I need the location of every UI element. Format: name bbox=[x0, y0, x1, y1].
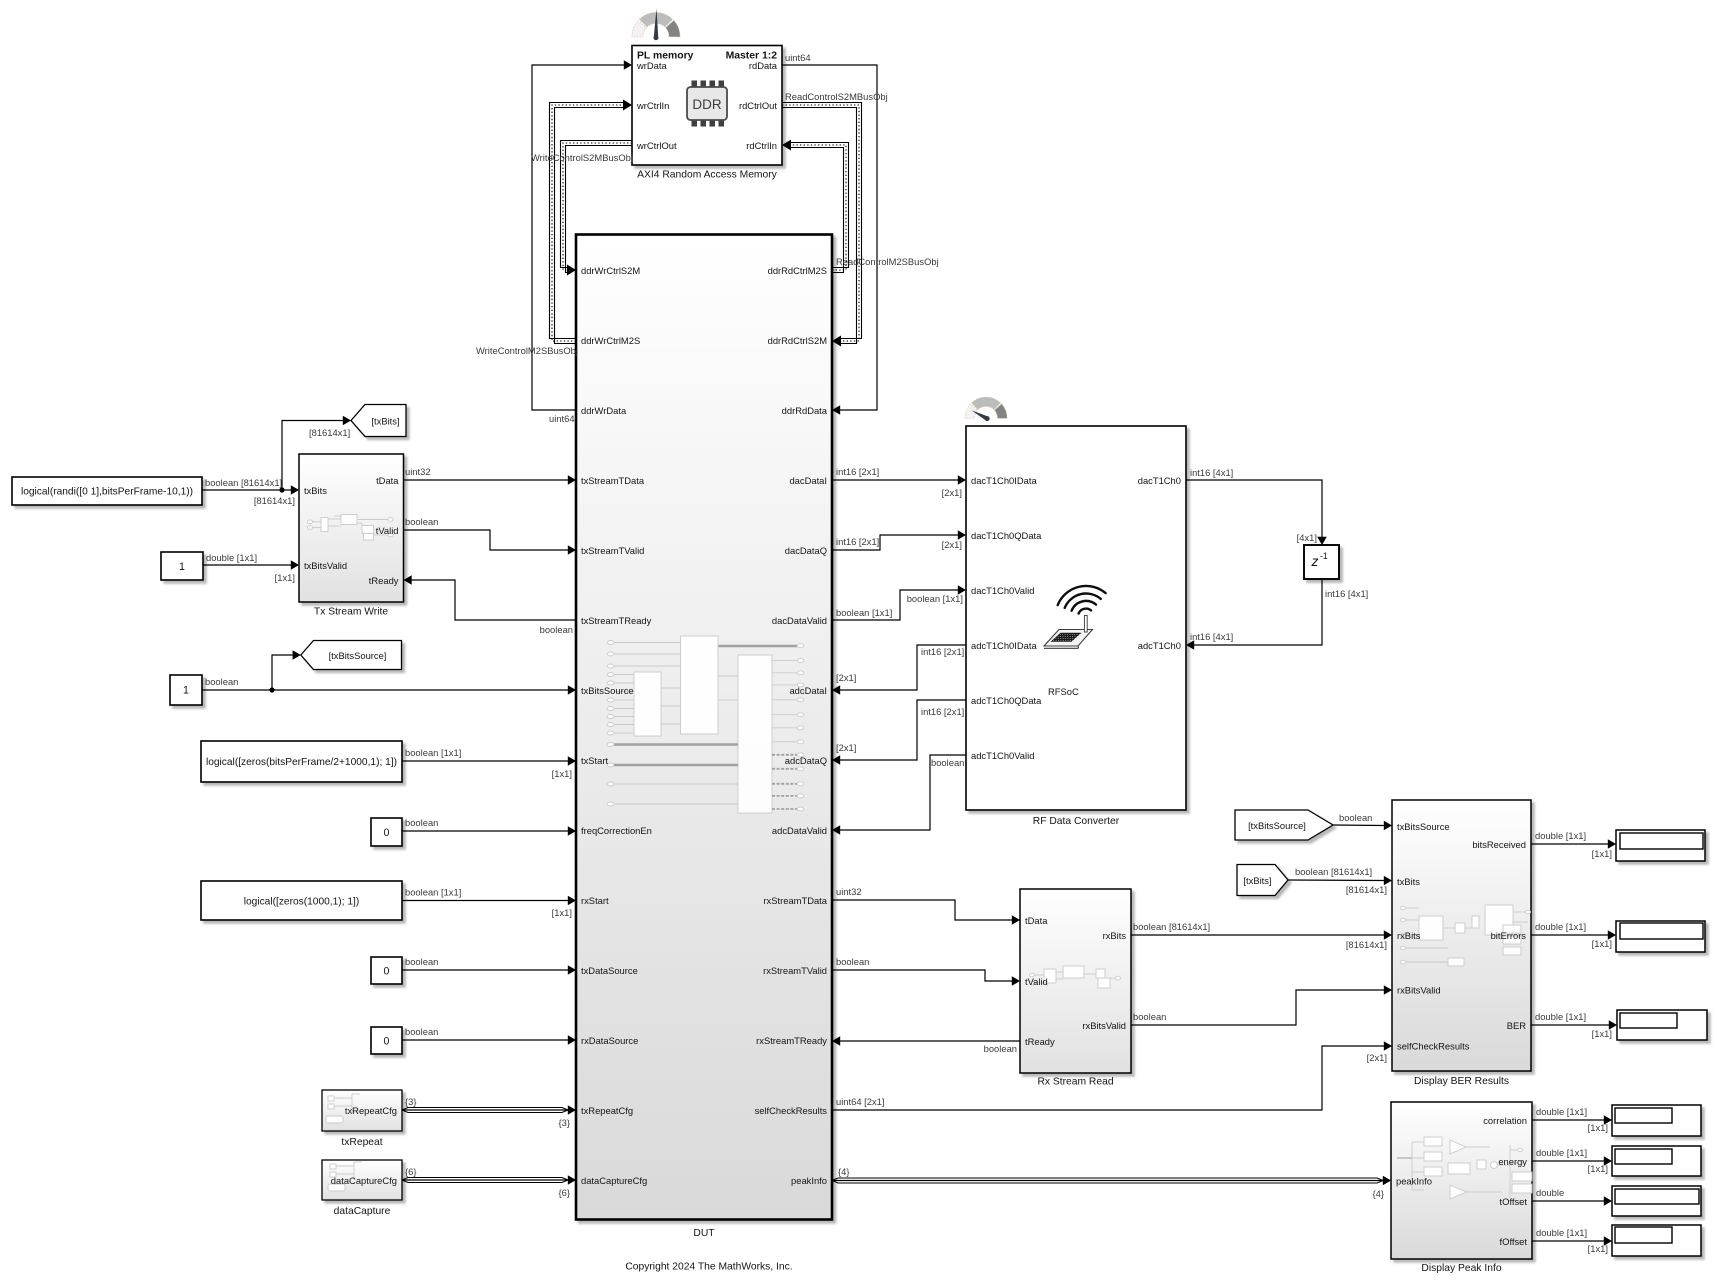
svg-text:adcDataQ: adcDataQ bbox=[785, 755, 827, 766]
svg-text:[2x1]: [2x1] bbox=[836, 672, 856, 683]
svg-text:Copyright 2024 The MathWorks,: Copyright 2024 The MathWorks, Inc. bbox=[625, 1262, 792, 1273]
svg-text:bitErrors: bitErrors bbox=[1491, 930, 1527, 941]
svg-text:boolean: boolean bbox=[405, 516, 438, 527]
svg-text:double [1x1]: double [1x1] bbox=[1535, 830, 1586, 841]
svg-text:AXI4 Random Access Memory: AXI4 Random Access Memory bbox=[637, 170, 777, 181]
svg-text:dacDataValid: dacDataValid bbox=[772, 615, 827, 626]
svg-text:rxStreamTData: rxStreamTData bbox=[763, 895, 827, 906]
svg-text:txBitsSource: txBitsSource bbox=[581, 685, 634, 696]
svg-text:rdCtrlIn: rdCtrlIn bbox=[746, 140, 777, 151]
svg-text:tReady: tReady bbox=[369, 575, 399, 586]
svg-text:adcT1Ch0: adcT1Ch0 bbox=[1138, 640, 1181, 651]
svg-text:ddrWrCtrlS2M: ddrWrCtrlS2M bbox=[581, 265, 640, 276]
svg-text:-1: -1 bbox=[1320, 551, 1328, 561]
svg-text:DDR: DDR bbox=[692, 97, 721, 112]
svg-text:[2x1]: [2x1] bbox=[836, 742, 856, 753]
svg-text:ReadControlS2MBusObj: ReadControlS2MBusObj bbox=[785, 91, 888, 102]
svg-text:{3}: {3} bbox=[405, 1096, 416, 1107]
svg-text:1: 1 bbox=[179, 561, 185, 573]
svg-text:boolean [81614x1]: boolean [81614x1] bbox=[1133, 921, 1210, 932]
svg-text:dacT1Ch0Valid: dacT1Ch0Valid bbox=[971, 585, 1034, 596]
svg-text:boolean [1x1]: boolean [1x1] bbox=[907, 593, 963, 604]
svg-text:selfCheckResults: selfCheckResults bbox=[1397, 1040, 1470, 1051]
svg-text:0: 0 bbox=[384, 1035, 390, 1047]
svg-text:tOffset: tOffset bbox=[1500, 1196, 1528, 1207]
svg-text:[2x1]: [2x1] bbox=[1367, 1052, 1387, 1063]
svg-text:tReady: tReady bbox=[1025, 1036, 1055, 1047]
svg-text:rxStart: rxStart bbox=[581, 895, 609, 906]
svg-text:dataCaptureCfg: dataCaptureCfg bbox=[331, 1175, 397, 1186]
svg-text:double [1x1]: double [1x1] bbox=[1536, 1106, 1587, 1117]
svg-text:[1x1]: [1x1] bbox=[552, 907, 572, 918]
svg-text:txRepeat: txRepeat bbox=[341, 1137, 382, 1148]
svg-text:selfCheckResults: selfCheckResults bbox=[755, 1105, 828, 1116]
svg-text:peakInfo: peakInfo bbox=[1396, 1175, 1432, 1186]
svg-text:uint64: uint64 bbox=[549, 413, 575, 424]
svg-text:Tx Stream Write: Tx Stream Write bbox=[314, 607, 388, 618]
svg-text:freqCorrectionEn: freqCorrectionEn bbox=[581, 825, 652, 836]
svg-text:boolean: boolean bbox=[1133, 1011, 1166, 1022]
svg-text:adcT1Ch0QData: adcT1Ch0QData bbox=[971, 695, 1042, 706]
svg-text:txBits: txBits bbox=[1397, 876, 1420, 887]
svg-text:rdData: rdData bbox=[749, 60, 778, 71]
svg-text:[txBitsSource]: [txBitsSource] bbox=[1248, 820, 1306, 831]
svg-text:[1x1]: [1x1] bbox=[1588, 1122, 1608, 1133]
svg-text:1: 1 bbox=[183, 684, 189, 696]
svg-text:WriteControlM2SBusObj: WriteControlM2SBusObj bbox=[476, 345, 578, 356]
svg-text:Display Peak Info: Display Peak Info bbox=[1421, 1263, 1501, 1274]
svg-text:[1x1]: [1x1] bbox=[1588, 1243, 1608, 1254]
svg-text:int16 [2x1]: int16 [2x1] bbox=[921, 646, 964, 657]
svg-text:tValid: tValid bbox=[376, 525, 399, 536]
svg-text:boolean: boolean bbox=[984, 1043, 1017, 1054]
svg-text:boolean: boolean bbox=[405, 817, 438, 828]
svg-text:dacT1Ch0IData: dacT1Ch0IData bbox=[971, 475, 1037, 486]
svg-text:wrData: wrData bbox=[636, 60, 667, 71]
svg-text:uint64: uint64 bbox=[785, 52, 811, 63]
svg-text:[txBitsSource]: [txBitsSource] bbox=[329, 650, 387, 661]
svg-text:int16 [4x1]: int16 [4x1] bbox=[1190, 631, 1233, 642]
svg-text:boolean [1x1]: boolean [1x1] bbox=[405, 887, 461, 898]
svg-text:z: z bbox=[1311, 553, 1319, 569]
svg-text:boolean: boolean bbox=[405, 956, 438, 967]
svg-text:ddrWrCtrlM2S: ddrWrCtrlM2S bbox=[581, 335, 640, 346]
svg-text:int16 [4x1]: int16 [4x1] bbox=[1190, 467, 1233, 478]
svg-text:{6}: {6} bbox=[559, 1187, 570, 1198]
svg-text:boolean: boolean bbox=[205, 676, 238, 687]
svg-text:rxStreamTReady: rxStreamTReady bbox=[756, 1035, 827, 1046]
svg-text:[1x1]: [1x1] bbox=[552, 768, 572, 779]
svg-text:ddrRdData: ddrRdData bbox=[782, 405, 828, 416]
svg-text:rxBitsValid: rxBitsValid bbox=[1397, 984, 1441, 995]
svg-text:correlation: correlation bbox=[1483, 1115, 1527, 1126]
svg-text:[2x1]: [2x1] bbox=[942, 539, 962, 550]
svg-text:boolean [1x1]: boolean [1x1] bbox=[405, 747, 461, 758]
svg-text:[2x1]: [2x1] bbox=[942, 487, 962, 498]
svg-text:double: double bbox=[1536, 1187, 1564, 1198]
svg-text:[1x1]: [1x1] bbox=[1592, 1028, 1612, 1039]
svg-text:txBitsValid: txBitsValid bbox=[304, 560, 347, 571]
svg-text:[81614x1]: [81614x1] bbox=[1346, 939, 1387, 950]
svg-text:wrCtrlIn: wrCtrlIn bbox=[636, 100, 669, 111]
svg-text:energy: energy bbox=[1498, 1156, 1527, 1167]
svg-text:int16 [2x1]: int16 [2x1] bbox=[836, 466, 879, 477]
svg-text:txStreamTData: txStreamTData bbox=[581, 475, 645, 486]
svg-text:wrCtrlOut: wrCtrlOut bbox=[636, 140, 677, 151]
svg-text:DUT: DUT bbox=[693, 1228, 715, 1239]
svg-text:logical(randi([0 1],bitsPerFra: logical(randi([0 1],bitsPerFrame-10,1)) bbox=[21, 486, 193, 497]
svg-text:{3}: {3} bbox=[559, 1117, 570, 1128]
svg-text:boolean: boolean bbox=[836, 956, 869, 967]
svg-text:ReadControlM2SBusObj: ReadControlM2SBusObj bbox=[836, 256, 939, 267]
svg-text:fOffset: fOffset bbox=[1500, 1236, 1528, 1247]
svg-text:adcDataI: adcDataI bbox=[789, 685, 827, 696]
svg-text:Display BER Results: Display BER Results bbox=[1414, 1076, 1509, 1087]
svg-text:logical([zeros(bitsPerFrame/2+: logical([zeros(bitsPerFrame/2+1000,1); 1… bbox=[206, 757, 397, 768]
svg-text:dacT1Ch0: dacT1Ch0 bbox=[1138, 475, 1181, 486]
svg-text:boolean: boolean bbox=[540, 624, 573, 635]
svg-text:double [1x1]: double [1x1] bbox=[1535, 1011, 1586, 1022]
svg-text:txRepeatCfg: txRepeatCfg bbox=[345, 1105, 397, 1116]
svg-text:[1x1]: [1x1] bbox=[1592, 938, 1612, 949]
svg-text:uint64 [2x1]: uint64 [2x1] bbox=[836, 1096, 884, 1107]
svg-text:rdCtrlOut: rdCtrlOut bbox=[739, 100, 777, 111]
svg-text:txStart: txStart bbox=[581, 755, 608, 766]
svg-text:WriteControlS2MBusObj: WriteControlS2MBusObj bbox=[531, 152, 633, 163]
svg-text:int16 [2x1]: int16 [2x1] bbox=[836, 536, 879, 547]
svg-text:int16 [4x1]: int16 [4x1] bbox=[1325, 588, 1368, 599]
svg-text:{6}: {6} bbox=[405, 1166, 416, 1177]
svg-text:dacDataI: dacDataI bbox=[789, 475, 827, 486]
svg-text:tData: tData bbox=[376, 475, 399, 486]
svg-text:[4x1]: [4x1] bbox=[1297, 532, 1317, 543]
svg-text:boolean [1x1]: boolean [1x1] bbox=[836, 607, 892, 618]
svg-text:tData: tData bbox=[1025, 915, 1048, 926]
svg-text:rxDataSource: rxDataSource bbox=[581, 1035, 638, 1046]
svg-text:ddrRdCtrlM2S: ddrRdCtrlM2S bbox=[768, 265, 827, 276]
svg-text:0: 0 bbox=[384, 965, 390, 977]
svg-text:peakInfo: peakInfo bbox=[791, 1175, 827, 1186]
svg-text:txBitsSource: txBitsSource bbox=[1397, 821, 1450, 832]
svg-text:txStreamTValid: txStreamTValid bbox=[581, 545, 644, 556]
svg-text:boolean: boolean bbox=[1339, 812, 1372, 823]
svg-text:rxStreamTValid: rxStreamTValid bbox=[763, 965, 827, 976]
svg-text:dataCapture: dataCapture bbox=[334, 1206, 391, 1217]
svg-text:bitsReceived: bitsReceived bbox=[1472, 839, 1526, 850]
svg-text:[1x1]: [1x1] bbox=[1592, 848, 1612, 859]
svg-text:double [1x1]: double [1x1] bbox=[206, 552, 257, 563]
svg-text:RFSoC: RFSoC bbox=[1048, 686, 1079, 697]
svg-text:adcDataValid: adcDataValid bbox=[772, 825, 827, 836]
svg-text:double [1x1]: double [1x1] bbox=[1536, 1147, 1587, 1158]
svg-text:[txBits]: [txBits] bbox=[1243, 875, 1271, 886]
svg-text:[1x1]: [1x1] bbox=[275, 572, 295, 583]
svg-text:Rx Stream Read: Rx Stream Read bbox=[1037, 1077, 1113, 1088]
svg-text:tValid: tValid bbox=[1025, 976, 1048, 987]
svg-text:[txBits]: [txBits] bbox=[371, 415, 399, 426]
svg-text:boolean: boolean bbox=[405, 1026, 438, 1037]
svg-text:ddrRdCtrlS2M: ddrRdCtrlS2M bbox=[768, 335, 828, 346]
svg-text:{4}: {4} bbox=[838, 1166, 849, 1177]
svg-text:uint32: uint32 bbox=[405, 466, 431, 477]
svg-text:txBits: txBits bbox=[304, 485, 327, 496]
svg-text:adcT1Ch0Valid: adcT1Ch0Valid bbox=[971, 750, 1034, 761]
svg-text:{4}: {4} bbox=[1373, 1188, 1384, 1199]
svg-text:dataCaptureCfg: dataCaptureCfg bbox=[581, 1175, 647, 1186]
svg-text:dacDataQ: dacDataQ bbox=[785, 545, 827, 556]
svg-text:boolean [81614x1]: boolean [81614x1] bbox=[1295, 866, 1372, 877]
svg-text:boolean [81614x1]: boolean [81614x1] bbox=[205, 477, 282, 488]
svg-text:adcT1Ch0IData: adcT1Ch0IData bbox=[971, 640, 1037, 651]
svg-text:int16 [2x1]: int16 [2x1] bbox=[921, 706, 964, 717]
svg-text:rxBitsValid: rxBitsValid bbox=[1082, 1020, 1126, 1031]
svg-text:[81614x1]: [81614x1] bbox=[254, 495, 295, 506]
svg-text:txStreamTReady: txStreamTReady bbox=[581, 615, 652, 626]
svg-text:double [1x1]: double [1x1] bbox=[1536, 1227, 1587, 1238]
svg-text:rxBits: rxBits bbox=[1397, 930, 1421, 941]
svg-text:dacT1Ch0QData: dacT1Ch0QData bbox=[971, 530, 1042, 541]
svg-text:ddrWrData: ddrWrData bbox=[581, 405, 627, 416]
svg-text:txDataSource: txDataSource bbox=[581, 965, 638, 976]
svg-text:RF Data Converter: RF Data Converter bbox=[1033, 816, 1120, 827]
svg-text:0: 0 bbox=[384, 827, 390, 839]
svg-text:rxBits: rxBits bbox=[1103, 930, 1127, 941]
svg-text:logical([zeros(1000,1); 1]): logical([zeros(1000,1); 1]) bbox=[244, 896, 360, 907]
svg-text:[81614x1]: [81614x1] bbox=[309, 427, 350, 438]
svg-text:double [1x1]: double [1x1] bbox=[1535, 921, 1586, 932]
svg-text:boolean: boolean bbox=[931, 757, 964, 768]
svg-text:txRepeatCfg: txRepeatCfg bbox=[581, 1105, 633, 1116]
svg-text:[81614x1]: [81614x1] bbox=[1346, 884, 1387, 895]
svg-text:[1x1]: [1x1] bbox=[1588, 1163, 1608, 1174]
svg-text:BER: BER bbox=[1507, 1020, 1527, 1031]
svg-text:uint32: uint32 bbox=[836, 886, 862, 897]
